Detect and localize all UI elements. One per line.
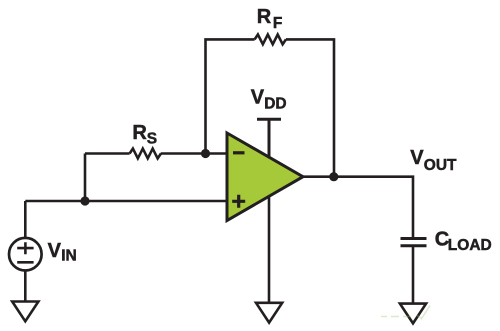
wire feedback top-right segment and right vertical bbox=[286, 39, 334, 176]
label RF bbox=[257, 6, 283, 32]
wire VIN bottom lead bbox=[24, 271, 27, 302]
op-amp U1 bbox=[227, 133, 303, 221]
wire left vertical from RS to input run bbox=[84, 154, 87, 202]
ground below VIN bbox=[12, 302, 38, 322]
svg-text:R: R bbox=[132, 122, 147, 144]
label VOUT bbox=[410, 147, 457, 174]
label VDD bbox=[251, 86, 287, 112]
wire op-amp ground lead bbox=[268, 196, 271, 302]
svg-text:F: F bbox=[273, 15, 282, 32]
svg-text:DD: DD bbox=[264, 95, 286, 112]
capacitor CLOAD bbox=[401, 239, 427, 246]
node output junction bbox=[329, 172, 338, 181]
svg-text:IN: IN bbox=[61, 248, 76, 265]
svg-text:OUT: OUT bbox=[424, 157, 457, 174]
wire RS left lead bbox=[85, 152, 130, 155]
node inverting input junction bbox=[201, 149, 210, 158]
source VIN bbox=[9, 238, 42, 271]
svg-text:LOAD: LOAD bbox=[448, 237, 492, 254]
svg-text:V: V bbox=[48, 240, 62, 262]
ground below op-amp bbox=[256, 303, 282, 323]
label CLOAD bbox=[435, 229, 492, 254]
svg-text:S: S bbox=[147, 131, 157, 148]
label RS bbox=[132, 122, 157, 148]
svg-text:R: R bbox=[257, 6, 272, 28]
svg-text:V: V bbox=[410, 147, 424, 169]
wire RS right lead to inverting input bbox=[161, 152, 227, 155]
wire feedback left vertical and top-left segment bbox=[206, 39, 255, 153]
wire output run bbox=[303, 177, 413, 238]
watermark remnant bbox=[381, 306, 430, 320]
label VIN bbox=[48, 240, 77, 265]
node input junction bbox=[80, 196, 89, 205]
wire VIN top lead bbox=[24, 201, 27, 237]
resistor RS bbox=[130, 149, 161, 159]
ground below CLOAD bbox=[400, 304, 426, 324]
wire capacitor bottom lead bbox=[412, 246, 415, 303]
svg-text:V: V bbox=[251, 86, 265, 108]
resistor RF bbox=[255, 35, 286, 45]
wire input bottom run to non-inverting input bbox=[25, 200, 227, 203]
power VDD symbol bbox=[257, 119, 281, 157]
